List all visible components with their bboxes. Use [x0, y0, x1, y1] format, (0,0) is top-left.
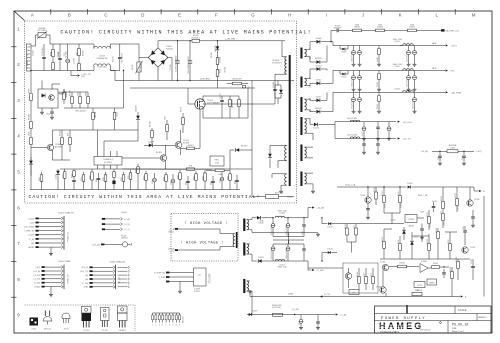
svg-text:R1097: R1097: [432, 201, 437, 203]
resistor R1067: [145, 171, 147, 174]
capacitor C1061: [98, 173, 100, 178]
svg-text:+12V1: +12V1: [451, 46, 458, 48]
svg-text:330K: 330K: [218, 69, 220, 74]
svg-text:C1040: C1040: [390, 220, 395, 222]
svg-text:(-C_B): (-C_B): [124, 224, 130, 226]
capacitor C1037: [363, 139, 365, 144]
diode D1030 aux: [269, 150, 271, 154]
svg-text:10uF/25V: 10uF/25V: [406, 53, 408, 62]
capacitor C1079: [472, 210, 474, 216]
rail 5vdig bus: [335, 121, 396, 123]
transistor T1005: [365, 197, 371, 203]
svg-text:D1009: D1009: [341, 52, 346, 54]
svg-text:LT1431: LT1431: [408, 219, 414, 221]
pot R1084: [215, 169, 224, 172]
svg-text:1067: 1067: [144, 176, 146, 180]
secondary diode D1016: [308, 109, 311, 111]
wire bridge right leg: [168, 58, 172, 81]
capacitor C1041: [463, 151, 465, 155]
TR1002 secondary winding 2: [247, 244, 249, 254]
wire bottom jog: [110, 70, 119, 72]
svg-text:10K0: 10K0: [441, 211, 443, 215]
svg-text:D1025: D1025: [327, 227, 332, 229]
svg-text:(C_5B): (C_5B): [82, 283, 88, 285]
svg-text:R1087: R1087: [357, 272, 359, 277]
svg-text:LM4041: LM4041: [408, 226, 415, 228]
svg-text:1M0: 1M0: [165, 116, 167, 120]
svg-text:1095: 1095: [228, 176, 230, 180]
wire ic row link: [93, 129, 138, 131]
svg-text:X1002: X1002: [121, 212, 128, 214]
svg-text:E: E: [178, 13, 181, 18]
resistor R1011: [182, 113, 184, 118]
svg-text:P_VON: P_VON: [159, 277, 166, 279]
resistor R1091: [355, 224, 357, 228]
svg-text:OPTO: OPTO: [351, 292, 357, 294]
svg-text:4K75: 4K75: [354, 225, 356, 229]
svg-text:D1028: D1028: [258, 257, 263, 259]
snubber wires: [275, 84, 281, 86]
wire reg bottom bus: [380, 258, 470, 260]
resistor R1066: [137, 164, 139, 167]
svg-text:1K00: 1K00: [385, 204, 387, 208]
rail ubpwr bus: [333, 91, 445, 93]
resistor R1012: [87, 92, 89, 97]
arrow UB_PWR: [446, 91, 448, 93]
svg-text:UB_PWR_COL: UB_PWR_COL: [446, 30, 461, 32]
svg-text:H: H: [288, 13, 291, 18]
resistor R1053: [61, 138, 64, 145]
capacitor C1017: [221, 96, 223, 100]
transistor T1087: [345, 273, 351, 279]
resistor R1039: [408, 29, 417, 32]
MOSFET gate wire: [188, 103, 195, 105]
wire top mains bus: [50, 43, 94, 45]
svg-text:1093: 1093: [194, 176, 196, 180]
wire snubber top: [218, 95, 240, 97]
svg-text:(+5V_D): (+5V_D): [81, 267, 88, 269]
svg-text:6: 6: [169, 325, 170, 327]
svg-text:Instruments: Instruments: [420, 329, 430, 332]
arrow -2_5L: [320, 295, 322, 297]
left border row ticks: [11, 46, 17, 48]
svg-text:R1073: R1073: [441, 196, 443, 201]
wire row5 ground bus: [30, 189, 240, 191]
resistor R1092: [375, 187, 377, 192]
svg-text:C1002: C1002: [287, 197, 293, 199]
resistor R1089: [372, 268, 374, 277]
TR1001 secondary windings: [305, 49, 307, 56]
IC1003 input arrows: [166, 272, 169, 274]
svg-text:1K00: 1K00: [371, 273, 373, 277]
wire right column: [251, 81, 253, 170]
svg-text:(+3_3V): (+3_3V): [33, 275, 40, 277]
svg-text:J: J: [362, 13, 364, 18]
capacitor C1066: [154, 173, 156, 178]
svg-text:C1001 4n7: C1001 4n7: [42, 47, 44, 56]
svg-text:D1010: D1010: [316, 65, 322, 67]
svg-text:100n: 100n: [46, 114, 50, 116]
svg-text:X1006 128A4-3/6: X1006 128A4-3/6: [110, 260, 126, 263]
svg-text:D1008: D1008: [316, 38, 322, 40]
network resistor 2: [155, 313, 157, 315]
capacitor R1036: [331, 29, 336, 31]
svg-text:X1004 128A4-3/6: X1004 128A4-3/6: [58, 211, 74, 214]
svg-text:RS205L: RS205L: [166, 48, 174, 50]
resistor R1056: [41, 172, 43, 175]
capacitor C1082: [317, 315, 319, 322]
capacitor C1026: [353, 71, 355, 76]
high voltage lead 1 tap: [175, 228, 178, 230]
svg-text:2n2: 2n2: [63, 53, 65, 56]
svg-text:D1029: D1029: [252, 311, 257, 313]
wire snubber bottom: [203, 117, 248, 119]
svg-text:C1008 100uF/400V: C1008 100uF/400V: [175, 55, 177, 72]
svg-text:1000uF/25V: 1000uF/25V: [351, 76, 353, 87]
svg-text:CBOAPT: CBOAPT: [119, 329, 127, 332]
diode pair D1011: [340, 73, 342, 75]
svg-text:100uF/25V: 100uF/25V: [412, 99, 414, 109]
TR1002 primary core bar: [236, 232, 238, 248]
svg-text:LL4148: LL4148: [56, 174, 58, 180]
svg-text:(-7_A): (-7_A): [341, 314, 347, 317]
svg-text:K: K: [399, 13, 402, 18]
svg-text:+5V_TP: +5V_TP: [403, 139, 412, 141]
svg-text:PS_OS_1A: PS_OS_1A: [452, 324, 469, 328]
wire top caps minus: [273, 243, 304, 245]
svg-text:9: 9: [179, 325, 180, 327]
svg-text:TO-220: TO-220: [83, 330, 89, 332]
capacitor C1081: [300, 315, 302, 320]
svg-text:2K74: 2K74: [398, 240, 400, 244]
network resistor 3: [158, 313, 160, 315]
diode D1025: [322, 223, 327, 225]
svg-text:D1011: D1011: [341, 77, 346, 79]
svg-text:HM8040-2: HM8040-2: [478, 317, 487, 319]
svg-text:47uF: 47uF: [220, 179, 222, 183]
svg-text:B4287U: B4287U: [315, 58, 322, 60]
svg-text:(+UB_BR): (+UB_BR): [225, 39, 235, 41]
svg-text:PC: PC: [198, 275, 201, 277]
svg-text:D1024: D1024: [327, 249, 332, 251]
IC1001 top pins: [97, 151, 99, 157]
svg-text:R1039: R1039: [409, 27, 415, 29]
opto box IC1008: [349, 290, 359, 295]
arrow +5V: [446, 69, 448, 71]
wire long bottom bus: [250, 296, 460, 298]
svg-text:POW_X2: POW_X2: [68, 274, 70, 284]
svg-text:T1006: T1006: [474, 199, 479, 201]
svg-text:C38A: C38A: [288, 293, 293, 296]
svg-text:C1042: C1042: [401, 203, 403, 208]
wire 3V3 bus: [247, 314, 335, 316]
rectifier joins: [326, 46, 328, 63]
arrow bus right: [461, 295, 463, 297]
secondary return wires: [308, 133, 313, 140]
svg-text:C1006: C1006: [170, 64, 172, 70]
svg-text:TO-126: TO-126: [102, 330, 108, 332]
resistor R1093: [195, 171, 197, 174]
T1003 wires: [160, 144, 175, 146]
capacitor C1051: [472, 259, 474, 266]
bridge rectifier D1005: [148, 48, 158, 58]
resistor R1008: [63, 89, 65, 93]
svg-text:47uF: 47uF: [152, 180, 154, 184]
svg-text:R1072: R1072: [427, 212, 429, 217]
capacitor C1085: [464, 226, 466, 230]
ferrite L1009: [447, 150, 458, 153]
resistor network RN1001 bus: [153, 312, 180, 314]
transistor T1085: [382, 264, 388, 270]
package IL300: [30, 318, 39, 326]
package TO-92: [62, 313, 70, 319]
wire reg verticals: [421, 236, 423, 242]
svg-text:(+3_3V): (+3_3V): [292, 309, 299, 311]
resistor R1063: [113, 169, 115, 172]
MOSFET T1001: [195, 99, 205, 109]
wire bridge top to UB_BR bus: [157, 41, 159, 48]
capacitor C1029: [414, 71, 416, 76]
zener D1062: [403, 227, 405, 230]
TR1001 pin stubs: [305, 48, 309, 50]
resistor R1060: [91, 169, 93, 172]
package NET-2G plug: [44, 311, 46, 317]
fuse F1001: [192, 39, 200, 42]
svg-text:R1070: R1070: [382, 191, 384, 196]
svg-text:1066: 1066: [136, 169, 138, 173]
svg-text:100n: 100n: [186, 181, 188, 185]
svg-text:1K00: 1K00: [398, 192, 400, 196]
rail 12V bus: [333, 45, 445, 47]
snubber C1044: [274, 85, 276, 89]
svg-text:D1061: D1061: [407, 183, 412, 185]
svg-text:CAUTION! CIRCUITY WITHIN THIS: CAUTION! CIRCUITY WITHIN THIS AREA AT LI…: [29, 194, 261, 200]
svg-text:4x4R7: 4x4R7: [377, 57, 379, 62]
transistor T1003: [175, 142, 182, 149]
zener D1063: [411, 236, 413, 241]
diode D1002: [230, 149, 235, 151]
svg-text:R1038: R1038: [377, 27, 383, 29]
svg-text:78uH 1.5A: 78uH 1.5A: [278, 266, 288, 269]
wire gate bus: [130, 87, 255, 89]
capacitor C1078: [433, 202, 435, 206]
svg-text:R1090: R1090: [345, 224, 347, 229]
svg-text:M: M: [472, 13, 476, 18]
resistor R1042: [378, 92, 380, 95]
svg-text:C1043: C1043: [444, 221, 446, 226]
svg-text:R1049: R1049: [29, 114, 31, 120]
svg-text:D1014: D1014: [313, 127, 319, 129]
svg-text:1M0: 1M0: [77, 52, 79, 56]
svg-text:RELL: RELL: [214, 160, 220, 162]
resistor R1087: [358, 268, 360, 277]
svg-text:100n: 100n: [235, 180, 237, 184]
resistor R1069: [179, 170, 181, 173]
ACP box C1002: [266, 195, 279, 199]
wire UB_BR bus: [158, 40, 192, 42]
transistor T1006: [467, 200, 473, 206]
resistor R1083: [457, 259, 459, 262]
fold mark: [406, 305, 408, 314]
top border column ticks: [50, 9, 52, 15]
resistor R1016: [233, 82, 242, 85]
resistor R1081: [432, 266, 440, 269]
network resistor 1: [152, 313, 154, 315]
resistor R1050: [30, 138, 33, 145]
svg-text:B: B: [68, 13, 71, 18]
svg-text:2: 2: [155, 325, 156, 327]
wire reg mid bus: [337, 223, 404, 225]
TR1001 aux winding 2: [285, 174, 287, 185]
svg-text:D1026: D1026: [258, 223, 263, 225]
capacitor C1071: [236, 175, 238, 180]
right margin vertical: [483, 196, 485, 297]
svg-text:C1005 100n: C1005 100n: [120, 53, 122, 63]
svg-text:1069: 1069: [178, 175, 180, 179]
svg-text:R1009: R1009: [70, 90, 72, 96]
resistor R1025: [187, 147, 195, 150]
fanout ground: [50, 287, 52, 294]
svg-text:LM35CZ: LM35CZ: [121, 238, 129, 240]
power good takeoff: [330, 30, 332, 41]
svg-text:(-2_5L): (-2_5L): [324, 294, 331, 296]
choke L1003 bottom winding: [93, 66, 95, 71]
IC1003 box: [194, 268, 207, 286]
svg-text:ST-383-P2: ST-383-P2: [272, 63, 283, 65]
svg-text:D1006: D1006: [211, 52, 213, 58]
svg-text:NTC-8R0: NTC-8R0: [38, 30, 47, 32]
capacitor C1036: [388, 122, 390, 127]
wire reg top bus: [337, 186, 407, 188]
svg-text:TP_X1: TP_X1: [119, 276, 121, 283]
capacitor C1039: [439, 151, 441, 155]
svg-text:(+5V_PWR): (+5V_PWR): [24, 227, 35, 229]
svg-text:12: 12: [309, 87, 311, 89]
svg-text:5: 5: [166, 325, 167, 327]
resistor R1049: [30, 122, 33, 129]
diode D1029: [249, 313, 252, 316]
relay box RL1001: [210, 156, 224, 166]
svg-text:R1041: R1041: [377, 82, 379, 87]
wire drain to transformer: [203, 103, 275, 105]
svg-text:BC369: BC369: [156, 152, 162, 154]
capacitor C1023: [408, 46, 410, 51]
svg-text:R1008: R1008: [65, 92, 67, 98]
wire bottom mains bus: [31, 70, 94, 72]
connector body X1005 128A4: [63, 265, 65, 290]
capacitor C1021: [353, 46, 355, 51]
svg-text:+5V_DIG: +5V_DIG: [403, 122, 412, 124]
svg-text:R1048: R1048: [94, 112, 96, 118]
dashed high voltage box: [171, 214, 238, 262]
svg-text:SMD: SMD: [415, 290, 420, 292]
power good terminal: [441, 29, 445, 31]
network resistor 5: [165, 313, 167, 315]
diode D1061: [408, 186, 411, 189]
title block main divider: [447, 321, 449, 334]
svg-text:1094: 1094: [203, 176, 205, 180]
arrow +12V: [446, 44, 448, 46]
svg-text:1000uF/25V: 1000uF/25V: [351, 51, 353, 62]
svg-text:R1016 47K: R1016 47K: [232, 79, 242, 81]
svg-text:TO-92: TO-92: [63, 329, 68, 331]
svg-text:1K00: 1K00: [448, 240, 450, 244]
resistor R1094: [204, 170, 206, 173]
svg-text:R1092: R1092: [374, 187, 376, 192]
svg-text:OPTO: OPTO: [417, 285, 423, 287]
svg-text:C1003: C1003: [33, 50, 35, 56]
diode D1028: [250, 254, 257, 261]
network resistor 6: [169, 313, 171, 315]
secondary diode D1014: [308, 118, 311, 120]
svg-text:1068: 1068: [164, 177, 166, 181]
svg-text:100n: 100n: [211, 181, 213, 185]
svg-text:100n/63V: 100n/63V: [333, 27, 342, 29]
svg-text:D1015: D1015: [316, 97, 322, 99]
svg-text:WR05: WR05: [168, 231, 174, 233]
resistor R1080: [398, 265, 407, 268]
capacitor C1075: [272, 244, 274, 247]
T1004 wires: [31, 147, 47, 149]
TR1001 core left bar: [289, 55, 291, 186]
TR1002 primary winding: [233, 233, 235, 247]
wire -7 bus: [264, 260, 308, 262]
capacitor C1027: [359, 71, 361, 76]
svg-text:L_FRE_TR: L_FRE_TR: [25, 231, 35, 233]
wire row5 bus upper: [60, 168, 252, 170]
resistor R1068: [165, 172, 167, 175]
svg-text:TO CRT: TO CRT: [208, 273, 212, 283]
capacitor C1008 bulk: [177, 41, 179, 55]
resistor R1070: [383, 187, 385, 196]
svg-text:47uF: 47uF: [299, 321, 301, 325]
svg-text:R1007: R1007: [132, 64, 134, 70]
svg-text:R1015: R1015: [223, 67, 225, 73]
svg-text:R1005: R1005: [83, 50, 85, 56]
svg-text:D1012: D1012: [316, 80, 322, 82]
svg-text:R1002: R1002: [57, 52, 59, 58]
svg-text:100n: 100n: [302, 231, 304, 235]
svg-text:(-C_C): (-C_C): [124, 229, 130, 231]
capacitor C1001: [43, 44, 45, 57]
svg-text:T1007: T1007: [470, 247, 475, 249]
secondary diode D1013: [308, 56, 311, 58]
wire bus BP1: [122, 168, 178, 170]
svg-text:LL4148: LL4148: [148, 142, 154, 144]
svg-text:(OPTION): (OPTION): [272, 307, 281, 309]
wire opto row: [58, 92, 64, 94]
capacitor C1028: [408, 71, 410, 76]
optocoupler leads: [41, 81, 43, 90]
resistor R1009: [71, 92, 73, 97]
svg-text:(+12V): (+12V): [28, 235, 34, 237]
title block scale cell: [454, 306, 456, 314]
TR1001 aux winding 1: [285, 145, 287, 160]
secondary diode D1015: [308, 98, 311, 100]
arrow 3V3 out: [336, 313, 338, 315]
svg-text:1000uF/16V: 1000uF/16V: [286, 224, 288, 235]
high voltage lead 2 wire: [178, 247, 233, 251]
capacitor C1038: [377, 139, 379, 144]
svg-text:R1042: R1042: [377, 104, 379, 109]
resistor R1005: [78, 44, 80, 49]
svg-text:AGND: AGND: [29, 246, 35, 249]
svg-text:B4287U: B4287U: [315, 108, 322, 110]
choke L1003 top winding: [93, 44, 95, 49]
svg-text:(+5V_TP): (+5V_TP): [80, 271, 89, 273]
resistor R1077: [399, 236, 401, 244]
package TO-220F: [118, 306, 128, 313]
